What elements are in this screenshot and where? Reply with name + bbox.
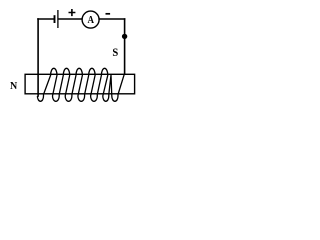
- ammeter A: [82, 11, 99, 28]
- core bar: [25, 74, 135, 94]
- label -: [106, 13, 111, 15]
- label +: [69, 9, 76, 16]
- wire right vertical: [124, 19, 126, 74]
- coil L1: [37, 68, 124, 101]
- svg-text:S: S: [112, 47, 118, 60]
- battery B1: [55, 10, 58, 28]
- svg-text:A: A: [87, 14, 94, 26]
- wire left vertical: [37, 19, 39, 96]
- wire top-left segment: [38, 18, 54, 20]
- switch S contact dot: [122, 34, 127, 39]
- wire ammeter to corner: [99, 18, 124, 20]
- wire battery to ammeter: [59, 18, 82, 20]
- svg-text:N: N: [10, 81, 18, 92]
